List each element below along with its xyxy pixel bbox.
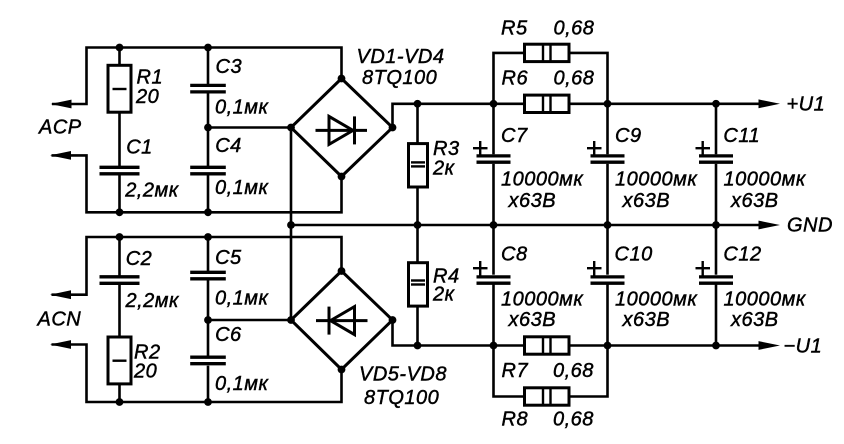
bridge rectifier VD1-VD4 [291, 46, 444, 177]
wire -U1 rail [393, 320, 760, 346]
wire ACP lower arm to mid rail and bridge bottom corner [52, 155, 342, 212]
capacitor C6 [190, 320, 269, 402]
capacitor C8 [473, 225, 584, 346]
svg-text:R7: R7 [502, 360, 529, 382]
svg-text:х63В: х63В [622, 190, 671, 212]
arrow ACP lower [50, 151, 71, 160]
svg-text:20: 20 [133, 361, 157, 383]
svg-text:C11: C11 [723, 125, 760, 147]
svg-text:10000мк: 10000мк [501, 169, 584, 191]
svg-text:10000мк: 10000мк [615, 289, 698, 311]
svg-text:10000мк: 10000мк [501, 289, 584, 311]
junction dots +U1 rail [414, 100, 422, 108]
svg-text:C3: C3 [216, 56, 243, 78]
svg-text:C6: C6 [215, 324, 242, 346]
svg-text:R8: R8 [502, 409, 529, 431]
svg-text:VD1-VD4: VD1-VD4 [357, 46, 445, 68]
capacitor C7 [473, 104, 584, 225]
svg-text:VD5-VD8: VD5-VD8 [359, 364, 447, 386]
capacitor C9 [587, 104, 698, 225]
svg-text:х63В: х63В [730, 309, 779, 331]
svg-text:GND: GND [787, 215, 833, 237]
svg-text:−U1: −U1 [784, 336, 823, 358]
bridge rectifier VD5-VD8 [291, 271, 447, 409]
svg-text:х63В: х63В [508, 190, 557, 212]
wire R5 loop [494, 53, 608, 104]
svg-text:0,1мк: 0,1мк [215, 373, 270, 395]
svg-text:10000мк: 10000мк [724, 169, 807, 191]
resistor R1 [108, 48, 163, 167]
resistor R5 [501, 18, 594, 62]
capacitor C2 [100, 237, 181, 337]
wire GND vertical joining bridge left corners [290, 128, 293, 321]
arrow ACN upper [50, 290, 71, 299]
resistor R7 [502, 337, 594, 382]
svg-text:ACP: ACP [38, 117, 82, 139]
capacitor C3 [190, 48, 269, 128]
resistor R4 [409, 225, 460, 346]
arrow +U1 [759, 99, 781, 108]
capacitor C12 [696, 225, 807, 346]
svg-text:C2: C2 [126, 248, 153, 270]
svg-text:10000мк: 10000мк [724, 289, 807, 311]
resistor R3 [409, 104, 460, 225]
svg-text:0,68: 0,68 [553, 409, 594, 431]
svg-text:C1: C1 [126, 137, 153, 159]
wire ACN upper arm to rail and bridge2 top corner [52, 237, 342, 295]
resistor R2 [108, 337, 161, 402]
resistor R8 [502, 388, 594, 431]
junction dots -U1 rail [414, 342, 422, 350]
svg-text:20: 20 [135, 86, 159, 108]
arrow ACP upper [51, 100, 72, 109]
svg-text:ACN: ACN [37, 308, 82, 330]
junction dots rail bottom section top [116, 233, 124, 241]
svg-text:C9: C9 [615, 125, 642, 147]
capacitor C11 [696, 104, 807, 225]
svg-text:х63В: х63В [508, 309, 557, 331]
wire ACP upper arm to top rail and bridge top corner [52, 48, 342, 105]
svg-text:C4: C4 [215, 135, 242, 157]
wire C5-C6 node to bridge2 left corner [208, 319, 291, 322]
svg-text:2к: 2к [432, 284, 456, 306]
svg-text:2,2мк: 2,2мк [125, 290, 181, 312]
capacitor C1 [100, 137, 180, 213]
svg-text:0,68: 0,68 [554, 68, 595, 90]
svg-text:+U1: +U1 [787, 94, 826, 116]
capacitor C10 [587, 225, 698, 346]
svg-text:8TQ100: 8TQ100 [362, 67, 437, 89]
svg-text:C5: C5 [215, 247, 242, 269]
wire ACN lower arm to bottom rail and bridge2 bottom corner [52, 345, 342, 403]
junction dots bottom rail [116, 398, 124, 406]
arrow GND [759, 221, 781, 230]
junction dot C3-C4 node [204, 124, 212, 132]
junction dot C5-C6 node [204, 316, 212, 324]
svg-text:0,68: 0,68 [553, 360, 594, 382]
wire C3-C4 node to bridge1 left corner [208, 126, 291, 129]
svg-text:R6: R6 [502, 68, 529, 90]
resistor R6 [502, 68, 595, 113]
svg-text:2к: 2к [432, 157, 456, 179]
wire R8 loop [494, 346, 608, 397]
svg-text:0,1мк: 0,1мк [215, 177, 270, 199]
capacitor C4 [190, 128, 269, 213]
svg-text:2,2мк: 2,2мк [124, 179, 180, 201]
svg-text:0,68: 0,68 [554, 18, 595, 40]
junction dots bridge2 corners [338, 267, 346, 275]
svg-text:C7: C7 [501, 125, 528, 147]
junction dots mid rail top section [116, 208, 124, 216]
wire GND rail [291, 224, 760, 227]
svg-text:8TQ100: 8TQ100 [364, 387, 439, 409]
junction dots GND rail [287, 221, 295, 229]
capacitor C5 [190, 237, 269, 320]
wire +U1 rail [393, 104, 760, 128]
arrow -U1 [759, 341, 781, 350]
svg-text:C10: C10 [615, 244, 653, 266]
svg-text:х63В: х63В [622, 309, 671, 331]
svg-text:R5: R5 [501, 18, 528, 40]
svg-text:C12: C12 [723, 244, 761, 266]
junction dots top rail [116, 44, 124, 52]
svg-text:х63В: х63В [730, 190, 779, 212]
svg-text:0,1мк: 0,1мк [215, 288, 270, 310]
svg-text:C8: C8 [501, 244, 528, 266]
junction dots bridge1 corners [338, 75, 346, 83]
svg-text:10000мк: 10000мк [615, 169, 698, 191]
svg-text:0,1мк: 0,1мк [215, 97, 270, 119]
arrow ACN lower [50, 340, 71, 349]
